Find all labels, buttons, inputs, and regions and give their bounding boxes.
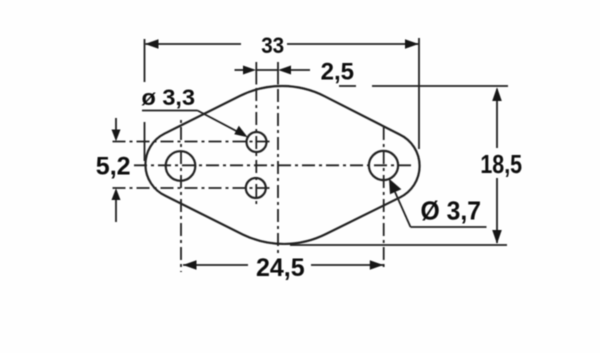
dimension 2,5 line right [284, 69, 310, 71]
centerline vertical left mounting hole [180, 119, 182, 272]
svg-text:Ø 3,7: Ø 3,7 [421, 195, 482, 225]
centerline H3 through bottom pin hole [113, 187, 272, 189]
arrowhead 2,5 right [278, 66, 291, 75]
arrowhead 2,5 left [243, 66, 256, 75]
svg-text:33: 33 [261, 33, 284, 58]
arrowhead 24,5 right [370, 260, 384, 270]
leader ø3,3 underline [142, 110, 198, 112]
dimension 2,5 line left [235, 69, 251, 71]
centerline vertical package center solid head [277, 62, 279, 85]
arrowhead 5,2 up [112, 188, 121, 200]
arrowhead Ø3,7 [389, 179, 401, 195]
dimension 33 extension line right [418, 38, 420, 149]
pin hole bottom (3.3 mm) [246, 178, 266, 198]
arrowhead 18,5 down [492, 230, 502, 244]
extension line top for 18,5 [339, 85, 356, 87]
centerline vertical package center [277, 89, 279, 254]
arrowhead ø3,3 [234, 126, 247, 138]
arrowhead 18,5 up [492, 87, 502, 101]
dimension 24,5 line [183, 264, 248, 266]
arrowhead 24,5 left [183, 260, 197, 270]
extension line bottom for 18,5 [290, 244, 507, 246]
dimension 5,2 stem bottom [115, 197, 117, 222]
dimension 2,5 line middle [256, 69, 278, 71]
arrowhead 33 right [405, 39, 419, 49]
centerline vertical right mounting hole [383, 123, 385, 269]
centerline H2 through mounting holes [134, 164, 414, 166]
pin hole top (3.3 mm) [247, 132, 267, 152]
leader ø3,3 diagonal [198, 111, 243, 135]
svg-text:ø 3,3: ø 3,3 [142, 85, 196, 110]
dimension 18,5 line [496, 89, 498, 148]
leader Ø3,7 diagonal [395, 192, 411, 227]
svg-text:2,5: 2,5 [321, 58, 354, 85]
svg-text:18,5: 18,5 [480, 149, 522, 179]
arrowhead 33 left [145, 39, 159, 49]
arrowhead 5,2 down [112, 130, 121, 142]
mounting hole left (3.7 mm) [166, 151, 196, 181]
svg-text:5,2: 5,2 [96, 152, 131, 180]
svg-text:24,5: 24,5 [256, 254, 305, 282]
dimension 5,2 stem top [115, 118, 117, 133]
leader Ø3,7 underline [411, 226, 487, 228]
centerline vertical pin column [255, 88, 257, 205]
centerline vertical pin column solid head [255, 62, 257, 85]
mounting hole right (3.7 mm) [369, 151, 398, 180]
centerline H1 through top pin hole [113, 141, 271, 143]
dimension 33 extension line left [144, 39, 146, 82]
dimension 33 line [146, 43, 242, 45]
package outline (TO-3 flange) [145, 86, 419, 244]
